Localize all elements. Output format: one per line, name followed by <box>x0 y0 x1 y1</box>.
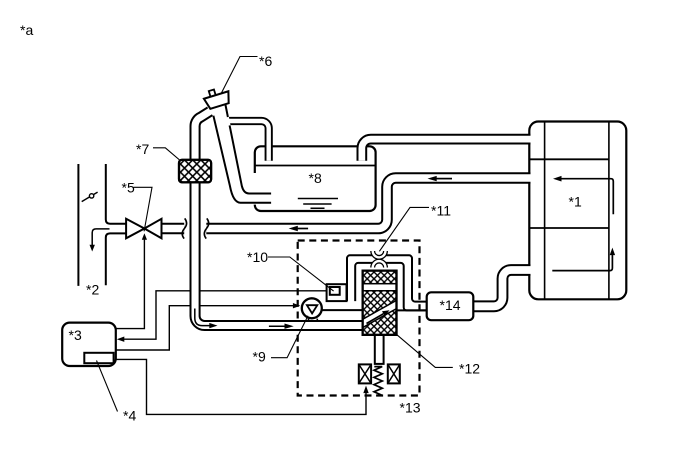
filler neck right wall lower segment <box>230 125 272 193</box>
svg-text:*14: *14 <box>440 297 461 313</box>
inlet flap line <box>82 192 98 202</box>
vent valve *12 middle hatched block <box>363 291 397 320</box>
tank vent tube bore <box>362 139 532 161</box>
flow arrowhead in purge tube lower (left) <box>289 226 298 231</box>
svg-text:*2: *2 <box>86 281 99 297</box>
vent tube bore <box>195 110 363 325</box>
engine inner vertical walls <box>545 122 609 299</box>
filler neck bore fill <box>214 105 271 202</box>
flow arrow line in vent tube (right) <box>269 325 285 327</box>
pump *9 triangle <box>307 305 317 313</box>
svg-text:*1: *1 <box>569 193 582 209</box>
air flow arrow line (down) <box>92 229 109 246</box>
leader line *11 <box>379 207 429 251</box>
purge tube bore <box>206 178 531 229</box>
line: canister *12 right side to VSV *14 <box>397 309 428 311</box>
flow arrowhead in purge tube (left) <box>428 176 437 181</box>
vent line outer: orifice right and down to VSV *14 <box>386 255 428 301</box>
ECM connector *4 <box>84 353 113 363</box>
reference orifice *11 upper arc <box>373 251 386 257</box>
svg-text:*6: *6 <box>259 53 272 69</box>
leader line *10 <box>268 257 334 291</box>
svg-text:*7: *7 <box>136 141 149 157</box>
engine flow arrow line (up) <box>552 254 612 271</box>
leader line *7 <box>153 148 180 161</box>
flow arrow line in purge tube (left) <box>437 178 453 180</box>
vent valve *12 lower hatched block <box>363 309 397 335</box>
svg-text:*5: *5 <box>122 180 135 196</box>
engine flow arrowhead (up) <box>610 248 615 256</box>
arrowhead up into valve *5 <box>142 233 147 240</box>
svg-text:*10: *10 <box>247 249 268 265</box>
filler neck left wall <box>213 116 271 203</box>
leader line *9 <box>271 316 308 358</box>
filler neck right wall upper segment <box>225 105 228 118</box>
leader line *4 <box>97 361 118 412</box>
pressure sensor *10 outer box <box>327 284 347 301</box>
arrowhead right into pump *9 <box>293 303 301 308</box>
vent valve *12 outline <box>363 271 397 335</box>
vent line inner: sensor area up and right to orifice <box>355 263 372 301</box>
fuel surface line <box>255 165 376 167</box>
inlet flap pivot circle <box>89 194 93 198</box>
svg-text:*11: *11 <box>431 203 451 219</box>
wire: ECM *3 to vent solenoid <box>116 359 366 414</box>
vent valve plunger stem <box>375 335 384 364</box>
flow arrow line in vent tube bend <box>195 309 210 326</box>
reference orifice *11 lower arc <box>373 261 386 267</box>
recirculation tube bore <box>223 121 269 161</box>
purge tube stub bore <box>161 225 184 233</box>
wire: ECM *3 to pump motor *9 <box>116 306 294 350</box>
engine *1 body <box>529 122 626 300</box>
flow arrowhead in vent tube bend <box>209 323 217 328</box>
flow arrow line in valve channel <box>367 314 384 324</box>
svg-text:*8: *8 <box>309 170 322 186</box>
svg-text:*13: *13 <box>400 400 421 416</box>
air filter *7 hatching <box>179 160 211 183</box>
leader line *6 <box>221 57 257 94</box>
VSV-to-engine tube bore <box>471 270 532 306</box>
solenoid coil right X <box>388 364 400 383</box>
tube C: VSV *14 up to engine <box>471 270 531 306</box>
ECM box *3 <box>62 323 116 366</box>
return spring <box>374 367 382 395</box>
tank wall opening for filler pipe <box>253 173 258 205</box>
vent line outer: sensor area up and right to orifice <box>347 255 372 301</box>
leader line *5 <box>134 187 153 231</box>
purge tube B: crossing cut, S-bend up, to engine <box>206 178 530 229</box>
svg-text:*a: *a <box>20 22 33 38</box>
vent tube A: fuel tank to engine <box>362 139 531 161</box>
air flow arrowhead (down) <box>90 245 95 252</box>
flow arrowhead in vent tube (right) <box>285 324 294 329</box>
solenoid coil left X <box>359 364 371 383</box>
flow arrowhead in valve channel <box>382 310 390 316</box>
vertical vent tube V: filler neck down to pump module <box>195 111 363 325</box>
svg-text:*4: *4 <box>123 408 136 424</box>
engine flow arrow line (left) <box>560 179 613 215</box>
arrowhead up into vent solenoid <box>363 386 368 394</box>
svg-text:*9: *9 <box>253 349 266 365</box>
air inlet duct *2 left wall <box>77 164 79 286</box>
leak detection pump module dashed enclosure *13 <box>298 241 420 396</box>
pump *9 mounting feet <box>309 319 318 321</box>
leader line *12 <box>397 335 453 368</box>
pipe crossing break mark right <box>204 218 208 238</box>
solenoid coil right box <box>388 364 400 383</box>
VSV box *14 <box>427 292 474 320</box>
fuel tank *8 body <box>255 146 376 211</box>
svg-text:*3: *3 <box>69 327 82 343</box>
vent valve body *12 <box>363 271 397 335</box>
air inlet duct *2 right wall and branch top to valve *5 <box>106 164 126 224</box>
wire: pressure sensor *10 to ECM *3 <box>123 291 327 339</box>
vent line inner: orifice right and down to VSV *14 <box>386 263 428 311</box>
filler recirculation branch into tank <box>224 121 269 161</box>
valve *5 left triangle <box>126 219 144 239</box>
pipe crossing break mark left <box>182 218 186 238</box>
wire: ECM *3 to purge valve *5 <box>116 240 145 329</box>
engine inner horizontal dividers <box>529 159 609 228</box>
svg-text:*12: *12 <box>459 361 480 377</box>
pressure sensor *10 inner box <box>330 287 340 295</box>
solenoid coil left box <box>359 364 371 383</box>
vent valve *12 top hatched seal <box>363 271 397 284</box>
arrowhead left into ECM *3 <box>117 337 125 342</box>
leak detection pump *9 circle <box>302 298 322 318</box>
fuel level marks <box>298 199 338 209</box>
purge tube left stub: valve to crossing cut <box>161 223 184 235</box>
engine flow arrowhead (left) <box>553 176 562 182</box>
filler cap *6 body <box>204 91 232 109</box>
valve *5 right triangle <box>144 219 161 239</box>
flow arrow line in purge tube lower (left) <box>297 228 309 230</box>
air filter *7 body <box>179 160 211 183</box>
pump outlet line to vent valve *12 <box>323 309 363 311</box>
filler cap *6 knob <box>209 90 216 98</box>
air inlet duct *2 right wall lower part and branch bottom <box>106 233 126 285</box>
